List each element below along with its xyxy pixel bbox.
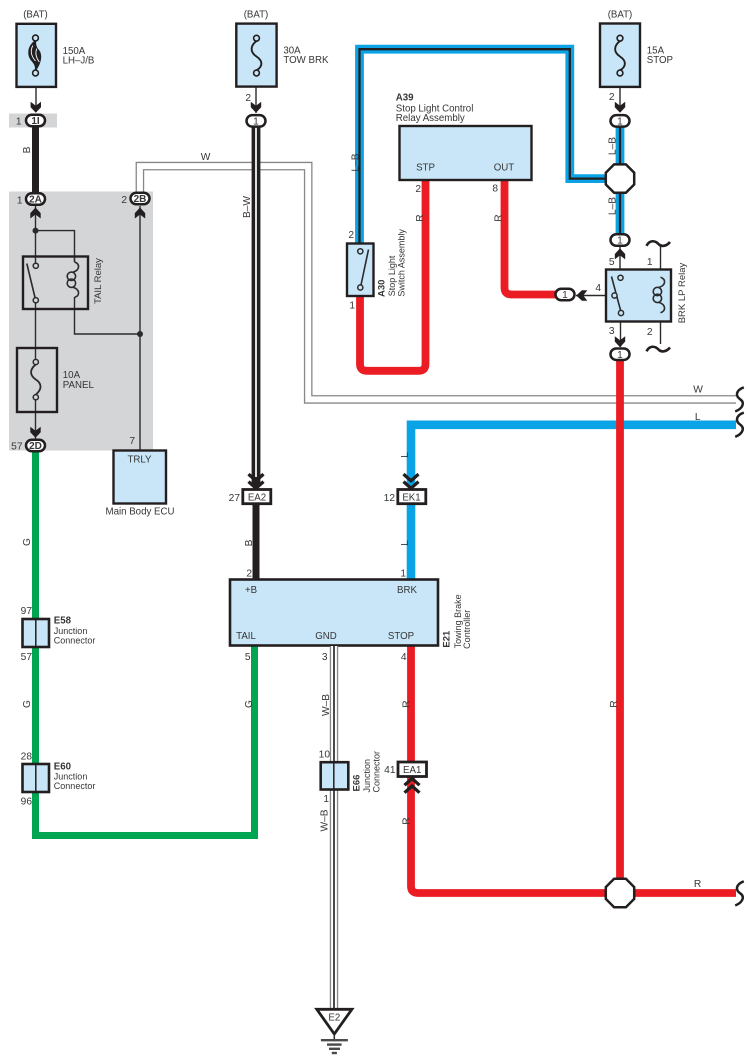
towing brake controller E21 box <box>230 580 438 646</box>
label B below EA2 <box>244 539 255 546</box>
fuse F1 150A LH-J/B box <box>17 24 57 87</box>
wire B fuse 150A to 2A <box>32 127 39 193</box>
node above tail relay <box>33 228 39 234</box>
connector EA2 <box>243 490 271 504</box>
svg-text:L: L <box>695 412 701 423</box>
svg-text:BRK LP Relay: BRK LP Relay <box>677 263 688 324</box>
label 1 for 2A <box>17 195 23 206</box>
svg-text:2B: 2B <box>134 194 147 205</box>
arrow up into 2A <box>30 208 40 219</box>
label 15A STOP <box>647 46 673 67</box>
wire B-W from 30A fuse oval to EA2 <box>252 127 261 487</box>
svg-text:E21: E21 <box>441 630 452 648</box>
wire L-B octagon to oval above BRK LP relay <box>616 192 625 235</box>
label 5 pin5 <box>609 257 615 268</box>
svg-text:B: B <box>244 539 255 546</box>
label 41 EA1 <box>384 765 396 776</box>
label G upper <box>22 538 33 546</box>
svg-text:2: 2 <box>121 195 127 206</box>
wire L-B from A30 to octagon junction <box>360 49 608 245</box>
label L above EK1 <box>400 452 411 458</box>
svg-text:5: 5 <box>609 257 615 268</box>
label B-W <box>242 196 253 218</box>
svg-text:TAIL: TAIL <box>236 631 256 642</box>
svg-text:2D: 2D <box>29 441 42 452</box>
squiggle below coil pin2 <box>647 347 671 352</box>
svg-text:LH–J/B: LH–J/B <box>63 55 95 66</box>
svg-text:W: W <box>693 385 703 396</box>
svg-text:STOP: STOP <box>388 631 414 642</box>
svg-text:R: R <box>694 879 701 890</box>
svg-text:12: 12 <box>384 493 396 504</box>
label W right <box>693 385 703 396</box>
svg-text:G: G <box>22 700 33 708</box>
svg-text:2: 2 <box>415 184 421 195</box>
label G tail wire <box>244 700 255 708</box>
svg-text:Connector: Connector <box>54 636 96 646</box>
label R vertical red wire <box>609 700 620 707</box>
node on 2B line <box>137 331 143 337</box>
label B wire <box>22 146 33 153</box>
svg-text:2: 2 <box>647 327 653 338</box>
label 2 F3 <box>609 92 615 103</box>
label L-B below octagon <box>608 197 619 215</box>
connector oval 1 at pin4 <box>556 289 575 301</box>
junction connector E58 <box>23 619 50 647</box>
svg-text:R: R <box>609 700 620 707</box>
label 1 for 1I <box>16 117 22 128</box>
junction connector E66 <box>321 762 349 789</box>
wire tail relay coil to node on 2B line <box>75 297 141 334</box>
lead fuse 30A <box>255 75 257 113</box>
label 2 for 2B <box>121 195 127 206</box>
label R stop wire upper <box>402 700 413 707</box>
relay block shaded area <box>9 192 153 451</box>
fuse F1 element <box>29 35 41 76</box>
svg-text:2A: 2A <box>29 195 42 206</box>
lead BRK LP relay coil pin1 <box>660 246 662 278</box>
wire W from 2B to right edge <box>140 166 736 399</box>
label W-B lower <box>320 809 331 831</box>
label 4 pin4 <box>595 283 601 294</box>
TAIL relay box <box>23 257 88 310</box>
svg-text:PANEL: PANEL <box>63 380 95 391</box>
junction octagon bottom <box>606 879 634 907</box>
label L-B left wire <box>351 153 362 171</box>
svg-text:EA1: EA1 <box>403 765 421 776</box>
label 8 OUT pin <box>492 184 498 195</box>
svg-text:EK1: EK1 <box>402 492 420 503</box>
label BRK LP Relay <box>677 263 688 324</box>
svg-text:1: 1 <box>400 569 406 580</box>
label 2 STP pin <box>415 184 421 195</box>
arrow up into 2B <box>135 208 145 219</box>
squiggle above coil pin1 <box>647 241 671 246</box>
label R right <box>694 879 701 890</box>
label 2 coil pin2 <box>647 327 653 338</box>
label 1 coil pin1 <box>647 257 653 268</box>
svg-text:G: G <box>22 538 33 546</box>
svg-text:Relay Assembly: Relay Assembly <box>396 113 465 124</box>
svg-text:1: 1 <box>349 300 355 311</box>
svg-text:97: 97 <box>21 606 33 617</box>
arrow into 1I <box>31 102 41 113</box>
svg-text:OUT: OUT <box>494 162 515 173</box>
svg-text:1: 1 <box>323 794 329 805</box>
label G lower <box>22 700 33 708</box>
label L below EK1 <box>400 540 411 546</box>
label W top <box>201 152 211 163</box>
label +B <box>245 585 257 596</box>
label 3 GND pin <box>322 652 328 663</box>
svg-text:R: R <box>402 817 413 824</box>
svg-text:E66: E66 <box>352 775 363 792</box>
label STP <box>416 162 435 173</box>
svg-text:Junction: Junction <box>54 772 88 782</box>
arrows out of EA1 <box>405 779 420 793</box>
svg-text:10: 10 <box>319 750 331 761</box>
svg-text:W: W <box>201 152 211 163</box>
svg-text:1: 1 <box>562 290 568 301</box>
wire 10A fuse to 2D <box>35 400 37 439</box>
connector EA1 <box>398 762 427 777</box>
svg-text:Connector: Connector <box>372 751 382 793</box>
label BRK <box>397 585 417 596</box>
label 3 pin3 <box>609 326 615 337</box>
wire R from BRK LP relay pin3 oval down to octagon <box>616 361 624 880</box>
svg-text:(BAT): (BAT) <box>23 10 48 21</box>
label 1 BRK <box>400 569 406 580</box>
arrow into F3 oval <box>615 102 625 113</box>
arrow into BRK LP relay pin5 <box>615 248 625 259</box>
label Main Body ECU <box>106 507 175 518</box>
label OUT <box>494 162 515 173</box>
svg-text:TAIL Relay: TAIL Relay <box>93 258 104 304</box>
arrows into EA2 <box>249 474 264 488</box>
svg-text:1: 1 <box>617 350 623 361</box>
svg-text:57: 57 <box>11 442 23 453</box>
label R under OUT <box>494 214 505 221</box>
label TAIL <box>236 631 256 642</box>
svg-text:2: 2 <box>348 230 354 241</box>
lead BRK LP relay pin3 <box>620 313 622 347</box>
BRK LP relay switch <box>612 275 624 315</box>
label GND <box>315 631 337 642</box>
svg-text:1: 1 <box>253 117 259 128</box>
svg-text:2: 2 <box>609 92 615 103</box>
svg-text:7: 7 <box>129 436 135 447</box>
arrow into pin4 oval <box>576 290 587 300</box>
svg-text:Connector: Connector <box>54 781 96 791</box>
svg-text:27: 27 <box>229 493 241 504</box>
svg-text:B–W: B–W <box>242 196 253 218</box>
svg-text:TRLY: TRLY <box>127 455 152 466</box>
label 1 E66 <box>323 794 329 805</box>
svg-text:L: L <box>400 540 411 546</box>
svg-text:L: L <box>400 452 411 458</box>
label 28 E60 <box>21 751 33 762</box>
svg-text:2: 2 <box>246 569 252 580</box>
connector oval 1 below pin3 <box>611 348 630 360</box>
svg-text:G: G <box>244 700 255 708</box>
TAIL relay switch <box>27 263 39 303</box>
A30 switch element <box>358 249 369 290</box>
BRK LP relay box <box>606 270 671 322</box>
label 97 E58 <box>21 606 33 617</box>
label 57 E58 <box>21 652 33 663</box>
junction octagon top <box>606 164 634 192</box>
svg-text:(BAT): (BAT) <box>608 10 633 21</box>
label STOP <box>388 631 414 642</box>
fuse F3 15A STOP box <box>600 24 640 87</box>
svg-text:5: 5 <box>245 652 251 663</box>
wire G from 2D through junction connectors to E21 TAIL <box>36 452 255 836</box>
svg-text:28: 28 <box>21 751 33 762</box>
label 150A LH-J/B <box>63 46 95 67</box>
svg-text:L–B: L–B <box>351 153 362 171</box>
wire R from A39 OUT to oval at BRK LP relay pin4 <box>505 181 558 295</box>
svg-text:Junction: Junction <box>362 759 372 793</box>
svg-text:4: 4 <box>595 283 601 294</box>
connector oval 2B <box>131 193 150 205</box>
label 2 F2 <box>245 93 251 104</box>
svg-text:4: 4 <box>401 652 407 663</box>
label 1 A30 pin1 <box>349 300 355 311</box>
label E58 Junction Connector <box>54 616 96 646</box>
connector oval 2D <box>26 440 45 452</box>
connector oval 1 below F2 <box>247 115 266 127</box>
svg-text:W–B: W–B <box>320 809 331 831</box>
svg-text:8: 8 <box>492 184 498 195</box>
wire B from EA2 to E21 +B <box>253 504 260 582</box>
svg-text:3: 3 <box>322 652 328 663</box>
ground E2 <box>317 1009 352 1053</box>
wire L from EK1 to E21 BRK <box>407 504 416 582</box>
squiggle R right <box>735 881 744 905</box>
label TAIL Relay <box>93 258 104 304</box>
svg-text:1: 1 <box>17 195 23 206</box>
svg-text:STP: STP <box>416 162 435 173</box>
lead fuse 150A <box>35 75 37 112</box>
wire R from A30 pin1 to A39 STP <box>360 181 426 371</box>
label W-B upper <box>321 694 332 716</box>
label 10 E66 <box>319 750 331 761</box>
label 7 for TRLY <box>129 436 135 447</box>
label L-B above octagon <box>608 137 619 155</box>
fuse F2 element <box>252 35 262 76</box>
label E21 Towing Brake Controller <box>441 594 472 648</box>
label A39 Stop Light Control Relay Assembly <box>396 92 474 124</box>
junction connector E60 <box>23 764 50 792</box>
squiggle W right <box>735 387 744 411</box>
label A30 Stop Light Switch Assembly <box>376 229 406 297</box>
svg-text:R: R <box>402 700 413 707</box>
svg-text:Stop Light: Stop Light <box>387 255 397 296</box>
svg-text:Junction: Junction <box>54 626 88 636</box>
svg-text:A30: A30 <box>376 280 387 297</box>
svg-text:Controller: Controller <box>462 610 472 649</box>
connector EK1 <box>398 490 426 504</box>
stop light switch A30 box <box>347 244 374 297</box>
wire L-B from 15A fuse oval to octagon <box>616 127 625 166</box>
wire branch to tail relay coil <box>36 231 75 257</box>
label E66 Junction Connector <box>352 751 382 793</box>
label (BAT) F3 <box>608 10 633 21</box>
svg-text:1: 1 <box>647 257 653 268</box>
BRK LP relay coil <box>653 277 664 313</box>
svg-text:R: R <box>494 214 505 221</box>
fuse F2 30A TOW BRK box <box>236 24 276 87</box>
svg-text:(BAT): (BAT) <box>244 10 269 21</box>
TAIL relay coil <box>67 257 78 298</box>
label (BAT) F1 <box>23 10 48 21</box>
wire W-B from GND to ground E2 <box>330 646 338 1010</box>
label (BAT) F2 <box>244 10 269 21</box>
fuse 10A element <box>31 359 40 399</box>
svg-text:1: 1 <box>617 117 623 128</box>
label 96 E60 <box>21 796 33 807</box>
svg-text:E2: E2 <box>328 1013 340 1024</box>
wire R from E21 STOP through EA1 to right edge <box>411 646 736 893</box>
label 10A PANEL <box>63 370 95 391</box>
TRLY Main Body ECU box <box>114 451 167 504</box>
label 30A TOW BRK <box>283 46 329 66</box>
svg-text:TOW BRK: TOW BRK <box>283 55 329 66</box>
stop light control relay assembly A39 box <box>400 126 532 180</box>
svg-text:1: 1 <box>16 117 22 128</box>
label R under STP <box>415 214 426 221</box>
svg-text:+B: +B <box>245 585 257 596</box>
lead BRK LP relay coil pin2 <box>660 311 662 344</box>
label 57 for 2D <box>11 442 23 453</box>
label 27 EA2 <box>229 493 241 504</box>
svg-text:L–B: L–B <box>608 197 619 215</box>
arrow into pin3 oval <box>615 336 625 347</box>
label 5 TAIL pin <box>245 652 251 663</box>
label E60 Junction Connector <box>54 761 96 791</box>
svg-text:2: 2 <box>245 93 251 104</box>
svg-text:41: 41 <box>384 765 396 776</box>
fuse 10A PANEL box <box>17 348 57 412</box>
svg-text:3: 3 <box>609 326 615 337</box>
lead BRK LP relay pin4 <box>576 295 606 297</box>
svg-text:1I: 1I <box>31 116 40 127</box>
wire tail relay switch to 10A fuse <box>35 301 37 360</box>
svg-text:1: 1 <box>617 236 623 247</box>
wire 2B to TRLY <box>139 206 141 451</box>
svg-text:Switch Assembly: Switch Assembly <box>397 229 407 297</box>
svg-text:L–B: L–B <box>608 137 619 155</box>
label 2 +B <box>246 569 252 580</box>
svg-text:GND: GND <box>315 631 337 642</box>
svg-text:Main Body ECU: Main Body ECU <box>106 507 175 518</box>
connector oval 1I <box>26 115 45 127</box>
svg-text:W–B: W–B <box>321 694 332 716</box>
svg-text:BRK: BRK <box>397 585 417 596</box>
arrow into F2 oval <box>251 102 261 113</box>
squiggle L right <box>735 413 744 437</box>
connector oval 1 above BRK LP relay <box>611 234 630 246</box>
svg-text:EA2: EA2 <box>248 492 266 503</box>
lead BRK LP relay pin5 <box>619 247 621 278</box>
label 4 STOP pin <box>401 652 407 663</box>
arrows into EK1 <box>404 474 419 488</box>
arrow into 2D <box>30 427 40 438</box>
svg-text:57: 57 <box>21 652 33 663</box>
connector oval 1 below F3 <box>611 115 630 127</box>
lead fuse 15A <box>619 75 621 112</box>
wire 2A to tail relay switch <box>35 206 37 264</box>
svg-text:R: R <box>415 214 426 221</box>
svg-text:B: B <box>22 146 33 153</box>
label R stop wire lower <box>402 817 413 824</box>
connector oval 2A <box>26 193 45 205</box>
svg-text:96: 96 <box>21 796 33 807</box>
label 12 EK1 <box>384 493 396 504</box>
wire L from right edge to EK1 <box>411 425 736 486</box>
label L right <box>695 412 701 423</box>
svg-text:STOP: STOP <box>647 55 673 66</box>
label 2 A30 pin2 <box>348 230 354 241</box>
svg-text:A39: A39 <box>396 92 414 103</box>
fuse F3 element <box>615 35 625 76</box>
connector 1I gray strip <box>9 114 57 128</box>
